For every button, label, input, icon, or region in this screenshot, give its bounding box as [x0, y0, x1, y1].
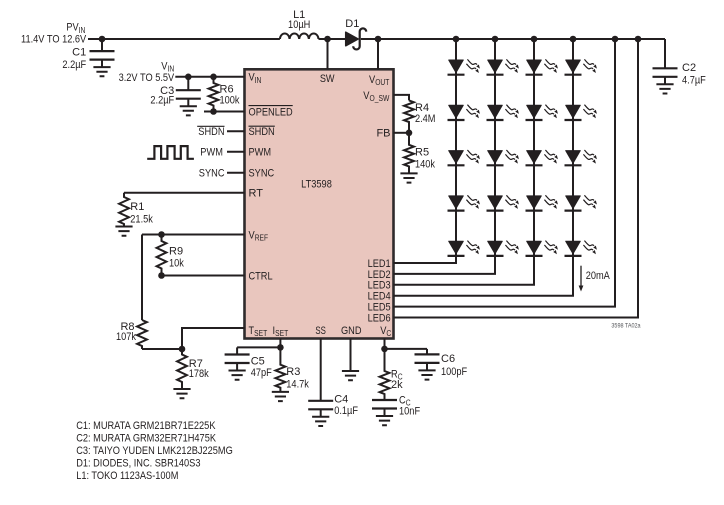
wire TSET pin — [182, 328, 245, 349]
svg-text:3598 TA02a: 3598 TA02a — [611, 322, 641, 329]
ground — [229, 371, 246, 380]
wire R8 bottom to R7 node — [142, 348, 182, 350]
LED string 1 diode 4 — [448, 195, 480, 210]
LED string 1 diode 5 — [448, 241, 480, 256]
svg-text:R3: R3 — [286, 366, 300, 378]
svg-text:D1: DIODES, INC. SBR140S3: D1: DIODES, INC. SBR140S3 — [76, 457, 200, 469]
LED string 2 diode 3 — [487, 150, 519, 165]
svg-text:2.2µF: 2.2µF — [62, 59, 86, 71]
wire D1 to C2 corner — [361, 38, 665, 40]
svg-text:2.4M: 2.4M — [415, 113, 436, 125]
svg-text:C2: C2 — [682, 62, 696, 74]
svg-text:D1: D1 — [345, 18, 359, 30]
capacitor C5 — [236, 347, 238, 354]
wire ISET to C5 — [237, 346, 280, 348]
wire VREF down to R8 — [141, 235, 143, 321]
wire LED string 4 vertical — [394, 39, 574, 296]
wire SW stub — [327, 39, 329, 69]
ground — [173, 389, 190, 398]
LED string 3 diode 5 — [526, 241, 558, 256]
svg-text:C1: C1 — [72, 46, 86, 58]
LED string 4 diode 4 — [565, 195, 597, 210]
svg-text:11.4V TO 12.6V: 11.4V TO 12.6V — [21, 33, 87, 45]
svg-text:R6: R6 — [220, 83, 234, 95]
node LED string 4 top junction — [570, 36, 577, 43]
svg-text:PWM: PWM — [200, 147, 223, 159]
node R7 top junction — [179, 346, 186, 353]
svg-text:21.5k: 21.5k — [130, 214, 153, 226]
ground — [93, 67, 110, 76]
svg-text:C3: TAIYO YUDEN LMK212BJ225MG: C3: TAIYO YUDEN LMK212BJ225MG — [76, 445, 233, 457]
ground — [115, 227, 132, 236]
wire LED string 3 vertical — [394, 39, 535, 285]
svg-text:2.2µF: 2.2µF — [150, 95, 174, 107]
diode D1 (Schottky) — [346, 32, 359, 46]
svg-text:100k: 100k — [220, 95, 240, 107]
ground — [272, 392, 289, 401]
capacitor C6 — [426, 349, 428, 355]
node FB junction — [406, 130, 413, 137]
svg-text:14.7k: 14.7k — [286, 379, 309, 391]
node R6 top junction — [210, 74, 217, 81]
resistor R1 — [119, 193, 129, 227]
ground — [376, 416, 393, 425]
svg-text:100pF: 100pF — [441, 366, 467, 378]
LED string 4 diode 5 — [565, 241, 597, 256]
wire VOSW pin — [394, 95, 410, 101]
svg-text:SYNC: SYNC — [249, 168, 275, 180]
node LED string 3 top junction — [531, 36, 538, 43]
svg-text:PWM: PWM — [249, 147, 272, 159]
current label 20mA arrow — [580, 266, 582, 287]
node R9 bottom — [158, 272, 165, 279]
resistor RC — [380, 349, 390, 400]
LED string 1 diode 2 — [448, 105, 480, 120]
ground — [180, 106, 197, 115]
resistor R9 — [157, 235, 167, 276]
wire L1 to D1 — [319, 38, 347, 40]
ground — [656, 84, 673, 93]
LED string 3 diode 1 — [526, 59, 558, 74]
capacitor C1 — [101, 39, 103, 51]
wire OPENLED — [204, 111, 245, 113]
svg-text:GND: GND — [341, 325, 362, 337]
svg-text:20mA: 20mA — [586, 270, 611, 282]
svg-text:47pF: 47pF — [251, 367, 272, 379]
resistor R8 — [137, 320, 147, 349]
node R6 bottom junction — [210, 108, 217, 115]
svg-text:R1: R1 — [130, 201, 144, 213]
resistor R5 — [404, 133, 414, 174]
ground — [400, 173, 417, 182]
svg-text:C1: MURATA GRM21BR71E225K: C1: MURATA GRM21BR71E225K — [76, 420, 216, 432]
svg-text:C2: MURATA GRM32ER71H475K: C2: MURATA GRM32ER71H475K — [76, 433, 216, 445]
wire VIN rail — [175, 76, 244, 78]
wire VREF pin — [142, 234, 245, 236]
LED string 2 diode 2 — [487, 105, 519, 120]
svg-text:140k: 140k — [415, 159, 435, 171]
wire PWM pin — [227, 151, 245, 153]
LED string 1 diode 1 — [448, 59, 480, 74]
wire SHDN pin — [227, 130, 245, 132]
svg-text:107k: 107k — [116, 331, 136, 343]
node VC junction — [381, 346, 388, 353]
wire VC to C6 — [385, 348, 428, 350]
svg-text:SYNC: SYNC — [199, 167, 225, 179]
LED string 2 diode 4 — [487, 195, 519, 210]
LED string 4 diode 3 — [565, 150, 597, 165]
wire VOUT stub — [377, 39, 379, 69]
node PVIN junction — [99, 36, 106, 43]
wire LED5 return — [394, 39, 616, 307]
wire VC stub — [384, 339, 386, 349]
ground — [312, 417, 329, 426]
capacitor C2 — [664, 39, 666, 68]
svg-text:SHDN: SHDN — [249, 126, 275, 138]
svg-text:0.1µF: 0.1µF — [334, 405, 358, 417]
svg-text:10k: 10k — [169, 258, 184, 270]
node LED string 1 top junction — [453, 36, 460, 43]
svg-text:10nF: 10nF — [399, 406, 420, 418]
ground — [418, 370, 435, 379]
ground — [342, 371, 359, 380]
node SW junction — [324, 36, 331, 43]
wire top rail PVIN to C2 — [88, 38, 280, 40]
svg-text:C6: C6 — [441, 353, 455, 365]
svg-text:178k: 178k — [189, 368, 209, 380]
LED string 3 diode 4 — [526, 195, 558, 210]
op-amp U1 LT3598 chip body — [245, 69, 394, 338]
svg-text:C4: C4 — [334, 393, 348, 405]
wire LED string 2 vertical — [394, 39, 496, 274]
svg-text:L1: TOKO 1123AS-100M: L1: TOKO 1123AS-100M — [76, 470, 178, 482]
wire SS stub — [320, 339, 322, 401]
wire FB pin — [394, 132, 410, 134]
inductor L1 — [280, 34, 319, 39]
svg-text:LED6: LED6 — [368, 312, 391, 324]
wire ISET stub — [279, 339, 281, 348]
svg-text:SS: SS — [315, 325, 326, 337]
LED string 4 diode 1 — [565, 59, 597, 74]
svg-text:SW: SW — [320, 73, 335, 85]
svg-text:3.2V TO 5.5V: 3.2V TO 5.5V — [119, 72, 175, 84]
node C3 junction — [185, 74, 192, 81]
capacitor C4 — [320, 400, 322, 402]
wire SYNC pin — [227, 172, 245, 174]
PWM square wave symbol — [147, 146, 194, 159]
LED string 3 diode 3 — [526, 150, 558, 165]
svg-text:4.7µF: 4.7µF — [682, 75, 706, 87]
node LED6 top junction — [635, 36, 642, 43]
resistor R3 — [276, 347, 286, 392]
node R9 top — [158, 231, 165, 238]
svg-text:2k: 2k — [391, 379, 403, 391]
svg-text:SHDN: SHDN — [198, 126, 224, 138]
wire LED string 1 vertical — [394, 39, 457, 263]
node LED5 top junction — [612, 36, 619, 43]
resistor R7 — [177, 349, 187, 389]
LED string 3 diode 2 — [526, 105, 558, 120]
svg-text:RT: RT — [249, 188, 264, 200]
svg-text:10µH: 10µH — [288, 19, 310, 31]
wire LED6 return — [394, 39, 639, 318]
OPENLED pin label overline — [249, 105, 293, 107]
wire CTRL pin — [162, 275, 245, 277]
LED string 2 diode 5 — [487, 241, 519, 256]
svg-text:CTRL: CTRL — [249, 270, 273, 282]
wire GND stub — [350, 339, 352, 372]
capacitor CC — [372, 400, 397, 409]
SHDN external label with overline — [197, 125, 224, 127]
LED string 1 diode 3 — [448, 150, 480, 165]
svg-text:R5: R5 — [415, 147, 429, 159]
svg-text:FB: FB — [376, 128, 390, 140]
LED string 2 diode 1 — [487, 59, 519, 74]
svg-text:R9: R9 — [169, 246, 183, 258]
node LED string 2 top junction — [492, 36, 499, 43]
resistor R4 — [404, 100, 414, 132]
node ISET junction — [277, 344, 284, 351]
capacitor C3 — [187, 77, 189, 90]
LED string 4 diode 2 — [565, 105, 597, 120]
node VOUT junction — [375, 36, 382, 43]
svg-text:LT3598: LT3598 — [301, 178, 332, 190]
resistor R6 — [209, 77, 219, 112]
svg-text:OPENLED: OPENLED — [249, 106, 293, 118]
wire RT pin — [124, 192, 245, 194]
